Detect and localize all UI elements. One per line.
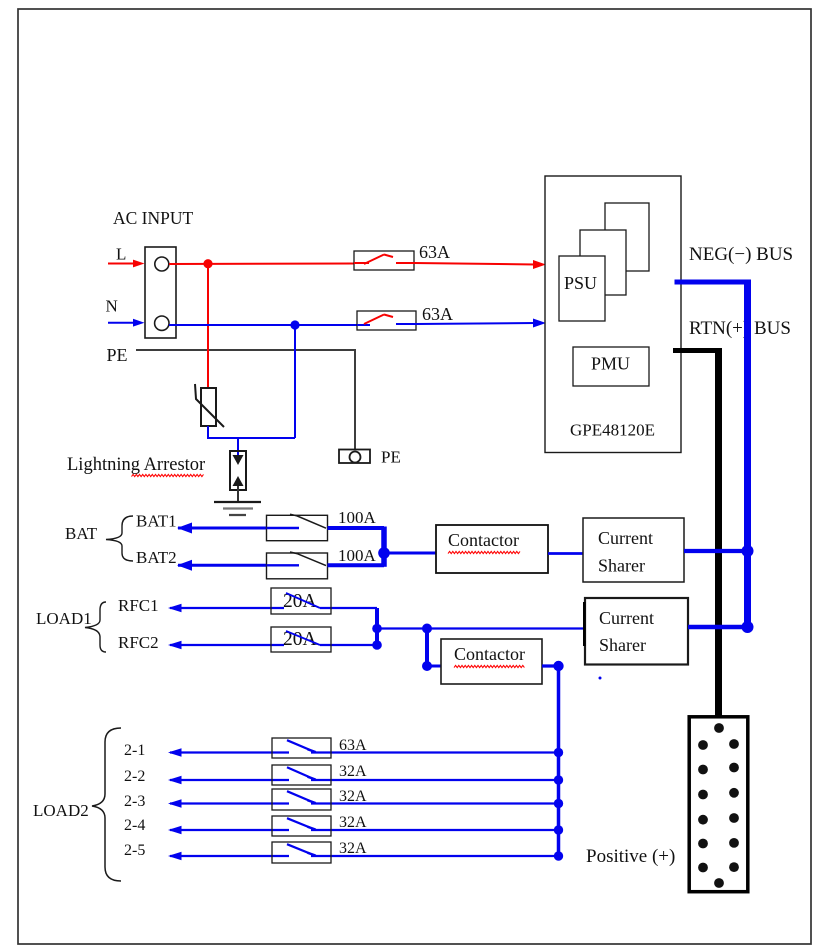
svg-text:Sharer: Sharer — [599, 635, 646, 655]
wire drop to arrestor — [237, 438, 239, 455]
node 2-4 — [554, 825, 563, 834]
wire LOAD2 feeder vertical — [557, 666, 561, 856]
wire contactor2 out — [542, 664, 559, 667]
wire N drop to arrestor net — [294, 325, 296, 438]
connector pins — [698, 723, 739, 888]
svg-text:32A: 32A — [339, 814, 367, 831]
PSU U1 front — [559, 256, 605, 321]
wire BAT2 out — [328, 563, 385, 567]
varistor RV1 — [195, 384, 224, 427]
black bus RTN wire horizontal — [673, 348, 722, 353]
svg-text:Contactor: Contactor — [448, 530, 519, 550]
svg-text:LOAD2: LOAD2 — [33, 801, 89, 820]
wire N to breaker — [169, 324, 357, 326]
PE terminal — [339, 450, 370, 464]
breaker BAT1 100A — [267, 514, 328, 541]
breaker 2-5 32A — [272, 842, 331, 863]
PSU stack back — [605, 203, 649, 271]
svg-text:63A: 63A — [339, 737, 367, 754]
svg-text:RTN(+) BUS: RTN(+) BUS — [689, 318, 791, 339]
contactor K2 — [441, 639, 542, 684]
svg-text:Current: Current — [598, 528, 653, 548]
wire current sharer1 to NEG bus — [684, 549, 749, 553]
node N junction — [290, 320, 299, 329]
brace LOAD2 — [92, 728, 121, 881]
node contactor2 out — [553, 661, 563, 671]
node bus junction 2 — [742, 621, 754, 633]
wire 2-2 with arrow — [168, 776, 559, 784]
node L junction — [203, 259, 212, 268]
wire 2-1 with arrow — [168, 748, 559, 756]
node 2-1 — [554, 748, 563, 757]
node 2-2 — [554, 775, 563, 784]
svg-text:32A: 32A — [339, 788, 367, 805]
svg-text:2-1: 2-1 — [124, 742, 145, 759]
svg-text:BAT1: BAT1 — [136, 512, 177, 531]
wire tap down to contactor2 — [425, 629, 429, 667]
svg-text:L: L — [116, 245, 126, 264]
svg-text:32A: 32A — [339, 840, 367, 857]
svg-text:RFC1: RFC1 — [118, 596, 159, 615]
svg-text:32A: 32A — [339, 763, 367, 780]
svg-text:AC INPUT: AC INPUT — [113, 208, 194, 228]
breaker 2-2 32A — [272, 765, 331, 785]
wire into contactor2 — [427, 665, 441, 668]
blue bus NEG wire horizontal — [675, 280, 752, 285]
PSU stack middle — [580, 230, 626, 295]
svg-text:Contactor: Contactor — [454, 644, 525, 664]
current sharer U2 — [583, 518, 684, 582]
breaker 2-1 63A — [272, 738, 331, 758]
node bus junction 1 — [742, 545, 754, 557]
black bus RTN wire vertical — [715, 348, 722, 716]
spellcheck squiggle under Arrestor — [132, 474, 204, 476]
terminal block X1 — [145, 247, 176, 338]
svg-text:100A: 100A — [338, 508, 377, 527]
svg-text:100A: 100A — [338, 546, 377, 565]
wire BAT1 with arrow — [177, 523, 267, 534]
blade RFC2 — [286, 631, 320, 645]
svg-text:BAT2: BAT2 — [136, 548, 177, 567]
node 2-5 — [554, 851, 563, 860]
svg-text:LOAD1: LOAD1 — [36, 609, 92, 628]
wire PE horizontal — [136, 350, 355, 450]
wire L input stub with arrow — [108, 260, 145, 268]
svg-text:N: N — [106, 297, 118, 316]
lightning arrestor F1 — [230, 451, 246, 502]
wire 2-4 with arrow — [168, 826, 559, 834]
brace LOAD1 — [85, 602, 106, 652]
breaker CB2 63A (N) — [357, 311, 416, 330]
svg-text:BAT: BAT — [65, 524, 98, 543]
wire BAT to contactor1 — [384, 552, 436, 555]
wire contactor1 to current sharer1 — [548, 552, 584, 555]
wire 2-5 with arrow — [168, 852, 559, 860]
svg-text:GPE48120E: GPE48120E — [570, 421, 655, 440]
svg-text:PE: PE — [381, 448, 401, 467]
wire BAT join vertical — [381, 527, 387, 567]
svg-text:Sharer: Sharer — [598, 556, 645, 576]
fuse RFC2 20A — [271, 627, 331, 652]
svg-text:2-5: 2-5 — [124, 842, 145, 859]
wire 2-3 with arrow — [168, 799, 559, 807]
svg-text:PSU: PSU — [564, 273, 597, 293]
node contactor2 in — [422, 661, 432, 671]
svg-text:Positive (+): Positive (+) — [586, 846, 675, 867]
fuse RFC1 20A — [271, 588, 331, 614]
svg-text:PMU: PMU — [591, 354, 630, 374]
svg-text:NEG(−) BUS: NEG(−) BUS — [689, 244, 793, 265]
squiggle under Contactor K2 — [454, 665, 524, 667]
wire LOAD1 to current sharer2 — [377, 627, 585, 629]
node 2-3 — [554, 799, 563, 808]
current sharer U3 — [585, 598, 688, 665]
wire BAT1 out — [328, 526, 385, 530]
svg-text:63A: 63A — [422, 304, 453, 324]
svg-text:2-4: 2-4 — [124, 817, 145, 834]
wire L drop to varistor — [207, 263, 209, 388]
wire N breaker to PSU with arrow — [416, 319, 546, 328]
wire LOAD1 join vertical — [375, 608, 379, 645]
blade RFC1 — [286, 593, 320, 608]
brace BAT — [106, 516, 133, 561]
breaker BAT2 100A — [267, 552, 328, 579]
wire N from terminal — [108, 319, 145, 327]
wire L breaker to PSU with arrow — [414, 260, 546, 269]
node BAT join — [378, 547, 390, 559]
wire BAT2 with arrow — [177, 560, 267, 571]
svg-text:RFC2: RFC2 — [118, 633, 159, 652]
node contactor2 tap — [422, 624, 432, 634]
blue bus NEG wire vertical — [744, 280, 751, 628]
node LOAD1 join upper — [372, 624, 382, 634]
breaker 2-3 32A — [272, 789, 331, 810]
svg-text:2-3: 2-3 — [124, 793, 145, 810]
svg-text:2-2: 2-2 — [124, 768, 145, 785]
contactor K1 — [436, 525, 548, 573]
svg-text:63A: 63A — [419, 242, 450, 262]
breaker CB1 63A (L) — [354, 251, 414, 270]
connector J1 positive distribution — [689, 717, 748, 892]
squiggle under Contactor K1 — [448, 551, 520, 553]
ground symbol — [214, 502, 261, 515]
svg-text:PE: PE — [107, 345, 128, 365]
wire RFC1 with arrow — [168, 604, 377, 612]
wire current sharer2 to NEG bus — [688, 625, 749, 630]
svg-text:Current: Current — [599, 608, 654, 628]
wire varistor bottom to N net — [208, 426, 295, 438]
wire L from terminal to breaker — [169, 263, 354, 266]
svg-text:Lightning Arrestor: Lightning Arrestor — [67, 455, 205, 475]
stray dot — [599, 677, 602, 680]
breaker 2-4 32A — [272, 816, 331, 836]
PMU module — [573, 347, 649, 386]
GPE48120E cabinet — [545, 176, 681, 453]
wire RFC2 with arrow — [168, 641, 377, 649]
node LOAD1 join lower — [372, 640, 382, 650]
